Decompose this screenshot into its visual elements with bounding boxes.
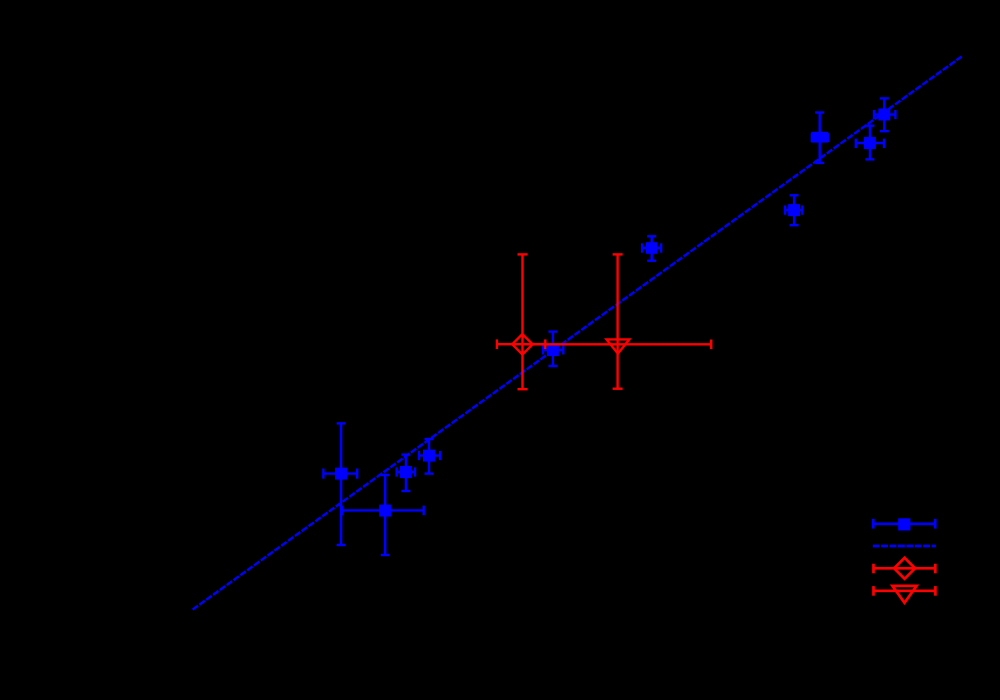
data point P9 errorbar+square xyxy=(856,126,884,160)
data point P7 errorbar+square xyxy=(785,195,802,225)
red point R1 errorbar+open diamond xyxy=(497,254,545,389)
legend entry 3: red errorbar with open diamond xyxy=(874,558,936,579)
legend entry 2: blue dashed line xyxy=(873,545,936,548)
data point P5 errorbar+square xyxy=(543,332,563,366)
data point P1 errorbar+square xyxy=(323,423,357,545)
red point R2 errorbar+open triangle-down xyxy=(524,254,711,388)
data point P8 errorbar+square xyxy=(811,113,828,163)
data point P4 errorbar+square xyxy=(419,439,440,474)
fit line (blue dashed) xyxy=(193,57,962,610)
data point P3 errorbar+square xyxy=(397,455,415,491)
data point P2 errorbar+square xyxy=(342,475,423,555)
legend entry 4: red errorbar with open triangle-down xyxy=(874,586,936,603)
data point P6 errorbar+square xyxy=(642,236,661,260)
data point P10 errorbar+square xyxy=(874,98,895,131)
legend entry 1: blue errorbar with square xyxy=(873,518,935,530)
